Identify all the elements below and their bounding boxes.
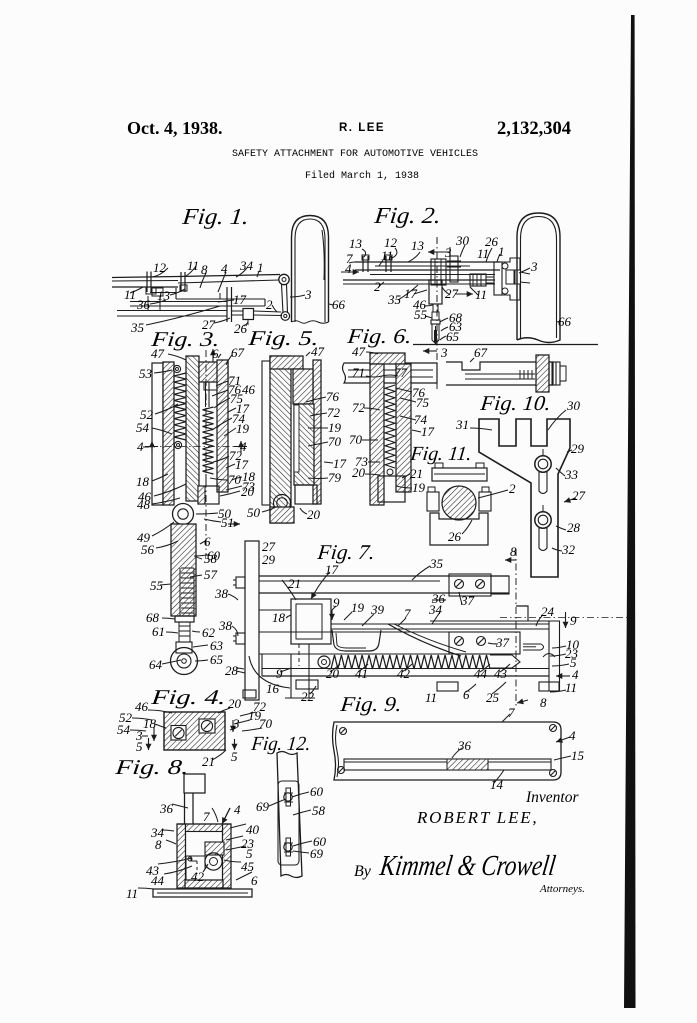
svg-text:3: 3 [440,345,448,360]
svg-text:20: 20 [241,484,255,499]
svg-text:50: 50 [247,505,261,520]
svg-text:2: 2 [509,481,516,496]
svg-text:19: 19 [351,600,365,615]
svg-text:19: 19 [328,420,342,435]
svg-text:28: 28 [225,663,239,678]
svg-text:36: 36 [136,297,151,312]
svg-text:37: 37 [460,593,475,608]
svg-text:43: 43 [494,666,508,681]
svg-text:Fig. 2.: Fig. 2. [372,202,442,228]
svg-text:75: 75 [416,395,430,410]
svg-text:8: 8 [510,544,517,559]
svg-text:Fig. 8.: Fig. 8. [113,755,190,779]
svg-text:ROBERT LEE,: ROBERT LEE, [416,808,539,827]
svg-text:29: 29 [571,441,585,456]
svg-text:72: 72 [327,405,341,420]
svg-text:26: 26 [234,321,248,336]
svg-text:30: 30 [455,233,470,248]
svg-text:4: 4 [234,802,241,817]
svg-text:18: 18 [272,610,286,625]
svg-text:56: 56 [141,542,155,557]
svg-text:51: 51 [221,515,234,530]
svg-text:55: 55 [150,578,164,593]
svg-text:19: 19 [236,421,250,436]
svg-text:58: 58 [204,551,218,566]
svg-text:Fig. 9.: Fig. 9. [338,692,403,716]
svg-text:11: 11 [477,246,489,261]
svg-text:24: 24 [541,604,555,619]
svg-text:68: 68 [146,610,160,625]
svg-text:70: 70 [259,716,273,731]
svg-text:66: 66 [332,297,346,312]
svg-text:70: 70 [328,434,342,449]
svg-text:Fig. 11.: Fig. 11. [408,443,472,465]
svg-text:22: 22 [301,689,315,704]
svg-text:17: 17 [233,292,247,307]
svg-text:13: 13 [411,238,425,253]
svg-text:9: 9 [570,613,577,628]
svg-text:9: 9 [333,595,340,610]
svg-text:6: 6 [204,534,211,549]
svg-text:14: 14 [490,777,504,792]
svg-text:45: 45 [241,859,255,874]
svg-text:4: 4 [137,439,144,454]
svg-text:47: 47 [311,344,325,359]
svg-text:53: 53 [139,366,153,381]
svg-text:57: 57 [204,567,218,582]
svg-text:69: 69 [256,799,270,814]
svg-text:61: 61 [152,624,165,639]
svg-text:Fig. 1.: Fig. 1. [180,203,250,229]
svg-text:44: 44 [474,666,488,681]
svg-text:3: 3 [232,716,240,731]
svg-text:6: 6 [251,873,258,888]
svg-text:Attorneys.: Attorneys. [539,883,585,895]
svg-text:18: 18 [143,716,157,731]
svg-text:21: 21 [202,754,215,769]
svg-text:58: 58 [312,803,326,818]
svg-text:67: 67 [474,345,488,360]
svg-text:2,132,304: 2,132,304 [497,119,571,139]
svg-text:2: 2 [266,297,273,312]
svg-text:15: 15 [571,748,585,763]
svg-text:3: 3 [304,287,312,302]
svg-text:13: 13 [349,236,363,251]
svg-text:SAFETY ATTACHMENT FOR AUTOMOTI: SAFETY ATTACHMENT FOR AUTOMOTIVE VEHICLE… [232,149,478,160]
svg-text:44: 44 [151,873,165,888]
svg-text:38: 38 [214,586,229,601]
svg-text:1: 1 [257,260,264,275]
svg-text:55: 55 [414,307,428,322]
svg-text:46: 46 [242,382,256,397]
svg-text:47: 47 [352,344,366,359]
svg-text:26: 26 [448,529,462,544]
svg-text:21: 21 [410,466,423,481]
svg-text:35: 35 [387,292,402,307]
svg-text:65: 65 [210,652,224,667]
svg-text:35: 35 [429,556,444,571]
svg-text:72: 72 [352,400,366,415]
svg-text:3: 3 [530,259,538,274]
svg-text:7: 7 [404,606,411,621]
svg-text:66: 66 [558,314,572,329]
svg-text:47: 47 [151,346,165,361]
svg-text:46: 46 [135,699,149,714]
svg-text:Fig. 7.: Fig. 7. [315,540,376,564]
svg-text:17: 17 [333,456,347,471]
svg-text:40: 40 [246,822,260,837]
svg-text:63: 63 [210,638,224,653]
svg-text:32: 32 [561,542,576,557]
svg-text:Filed March 1, 1938: Filed March 1, 1938 [305,170,419,182]
svg-text:42: 42 [397,666,411,681]
svg-text:11: 11 [187,258,199,273]
svg-text:60: 60 [310,784,324,799]
svg-text:67: 67 [231,345,245,360]
svg-text:42: 42 [191,869,205,884]
svg-text:4: 4 [345,261,352,276]
svg-text:21: 21 [288,576,301,591]
svg-text:11: 11 [124,287,136,302]
svg-text:Fig. 10.: Fig. 10. [478,391,552,415]
svg-text:54: 54 [136,420,150,435]
svg-text:8: 8 [540,695,547,710]
svg-text:2: 2 [374,279,381,294]
svg-text:4: 4 [221,261,228,276]
svg-text:13: 13 [157,288,171,303]
svg-text:11: 11 [565,680,577,695]
svg-text:11: 11 [126,886,138,901]
svg-text:36: 36 [457,738,472,753]
svg-text:31: 31 [455,417,469,432]
svg-text:3: 3 [444,245,452,260]
svg-text:6: 6 [212,346,219,361]
svg-text:Fig. 4.: Fig. 4. [149,685,227,709]
svg-text:12: 12 [153,260,167,275]
svg-text:Oct. 4, 1938.: Oct. 4, 1938. [127,118,222,138]
svg-text:R. LEE: R. LEE [339,122,385,134]
svg-text:18: 18 [136,474,150,489]
svg-text:11: 11 [425,690,437,705]
svg-text:25: 25 [486,690,500,705]
svg-text:64: 64 [149,657,163,672]
svg-text:6: 6 [463,687,470,702]
svg-text:28: 28 [567,520,581,535]
svg-text:48: 48 [137,497,151,512]
svg-text:27: 27 [445,286,459,301]
svg-text:7: 7 [203,809,210,824]
svg-text:41: 41 [355,666,368,681]
svg-text:17: 17 [421,424,435,439]
svg-text:34: 34 [428,602,443,617]
svg-text:35: 35 [130,320,145,335]
svg-text:4: 4 [569,728,576,743]
svg-text:30: 30 [566,398,581,413]
svg-text:36: 36 [159,801,174,816]
svg-text:69: 69 [310,846,324,861]
svg-text:1: 1 [498,244,505,259]
svg-text:27: 27 [572,488,586,503]
svg-text:8: 8 [155,837,162,852]
svg-text:37: 37 [495,635,510,650]
svg-text:20: 20 [326,666,340,681]
svg-text:34: 34 [239,258,254,273]
svg-text:5: 5 [136,739,143,754]
svg-text:20: 20 [228,696,242,711]
svg-text:17: 17 [325,562,339,577]
svg-text:20: 20 [352,465,366,480]
svg-text:33: 33 [564,467,579,482]
svg-text:54: 54 [117,722,131,737]
svg-text:38: 38 [218,618,233,633]
svg-text:77: 77 [394,365,408,380]
svg-text:79: 79 [328,470,342,485]
svg-text:76: 76 [326,389,340,404]
svg-text:9: 9 [276,666,283,681]
svg-text:16: 16 [266,681,280,696]
svg-text:65: 65 [446,329,460,344]
svg-text:8: 8 [201,262,208,277]
svg-text:20: 20 [307,507,321,522]
svg-text:Fig. 5.: Fig. 5. [246,326,320,350]
svg-text:71: 71 [352,365,365,380]
svg-text:Inventor: Inventor [525,789,579,806]
svg-text:39: 39 [370,602,385,617]
svg-text:11: 11 [475,287,487,302]
svg-text:By: By [354,863,372,880]
svg-text:19: 19 [412,480,426,495]
svg-text:29: 29 [262,552,276,567]
svg-text:5: 5 [231,749,238,764]
svg-text:Kimmel & Crowell: Kimmel & Crowell [377,850,557,882]
svg-text:70: 70 [349,432,363,447]
svg-text:70: 70 [228,472,242,487]
svg-text:7: 7 [508,705,515,720]
svg-text:11: 11 [381,248,393,263]
